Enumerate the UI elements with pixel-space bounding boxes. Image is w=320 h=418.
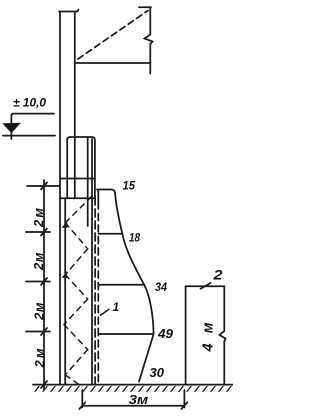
svg-text:49: 49: [157, 327, 173, 341]
jacket inner right line: [87, 138, 89, 226]
svg-text:3м: 3м: [129, 393, 149, 407]
collar bottom: [60, 197, 95, 199]
level mark triangle: [4, 123, 20, 132]
svg-text:34: 34: [155, 280, 167, 294]
epure left dashed edge: [97, 190, 99, 202]
column right flange: [74, 12, 76, 198]
column left flange: [59, 12, 61, 385]
casing left line: [64, 198, 66, 384]
epure level line 49: [98, 333, 153, 335]
lattice node gusset upper: [63, 222, 67, 227]
beam: [76, 62, 151, 64]
svg-text:4 м: 4 м: [201, 322, 217, 352]
level leader: [11, 114, 54, 139]
bottom dimension extension right: [183, 390, 185, 408]
dim ground tick: [41, 381, 47, 388]
ground line: [33, 384, 233, 386]
jacket top: [67, 137, 95, 140]
jacket right line: [91, 139, 93, 384]
right epure 2 top edge: [186, 285, 225, 287]
svg-text:2м: 2м: [31, 208, 46, 228]
epure level line 34: [98, 284, 144, 286]
epure top edge: [97, 190, 115, 193]
svg-text:15: 15: [123, 179, 136, 193]
ground hatching: [35, 387, 231, 392]
epure curved right edge: [115, 193, 154, 382]
svg-text:2м: 2м: [32, 348, 47, 368]
label 1 leader: [100, 309, 110, 316]
casing outer right dashed line: [94, 197, 96, 384]
dim level tick 2: [26, 278, 50, 285]
svg-text:± 10,0: ± 10,0: [13, 96, 46, 110]
svg-text:1: 1: [113, 300, 120, 314]
svg-text:2м: 2м: [31, 252, 46, 271]
svg-text:2: 2: [212, 268, 223, 283]
label 2 leader: [201, 283, 211, 289]
mast vertical with break: [145, 7, 153, 73]
bottom dimension line: [82, 405, 184, 407]
epure level line 18: [98, 233, 122, 235]
svg-text:30: 30: [150, 366, 165, 380]
bottom dim tick right: [181, 402, 187, 409]
bottom dimension extension left: [81, 390, 83, 408]
right epure 2 left edge: [185, 286, 187, 384]
collar top: [60, 178, 95, 180]
jacket left: [66, 139, 68, 179]
dashed tie diagonal: [78, 11, 148, 60]
bottom dim tick left: [79, 402, 85, 409]
mast top tick: [139, 6, 151, 8]
lattice zigzag diagonals: [64, 197, 92, 385]
svg-text:2м: 2м: [32, 302, 47, 321]
level line: [3, 135, 55, 137]
column cap: [59, 10, 79, 12]
jacket left lower continuation: [66, 179, 68, 199]
jacket outer right line: [94, 140, 96, 197]
left dimension chain line: [43, 180, 45, 389]
dim level tick 1: [26, 229, 50, 236]
svg-text:18: 18: [129, 233, 141, 245]
dim level tick 3: [26, 328, 50, 335]
right epure 2 right edge with brace: [220, 286, 226, 384]
lattice node gusset lower: [63, 272, 67, 277]
dim level tick 0: [27, 183, 59, 190]
